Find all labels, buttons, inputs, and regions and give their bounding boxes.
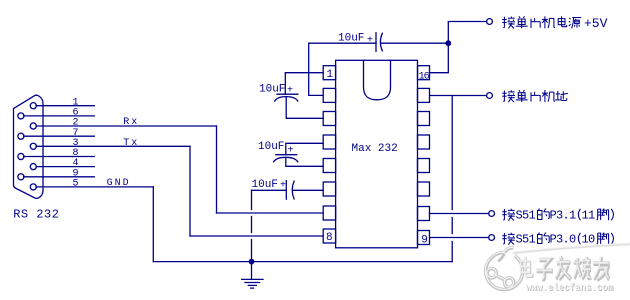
wire GND vertical [152, 187, 154, 262]
wire pin7 stub [24, 135, 95, 137]
svg-text:Max 232: Max 232 [352, 143, 398, 155]
svg-text:+: + [288, 145, 294, 156]
MCU ground terminal circle [487, 93, 493, 99]
U1 pin 1 box [323, 66, 335, 80]
label: 接单片机电源+5V [502, 16, 581, 28]
ground symbol [251, 262, 253, 280]
wire pin5 GND [36, 186, 153, 188]
svg-text:16: 16 [419, 71, 430, 82]
U1 pin 8 box [323, 229, 335, 243]
svg-text:Tx: Tx [123, 138, 139, 149]
svg-text:+: + [367, 35, 373, 46]
label: 接单片机地 [502, 90, 568, 102]
capacitor C2 wiring (pin4 to pin5) [286, 143, 323, 154]
wire Rx to U1 pin7 [217, 212, 324, 214]
svg-text:+5V: +5V [584, 16, 608, 31]
label: 接S51的P3.0（10脚） [502, 233, 613, 245]
U1 pin 10 box [418, 207, 430, 221]
U1 pin 15 box [418, 88, 430, 102]
U1 pin 11 box [418, 182, 430, 196]
U1 pin 12 box [418, 159, 430, 173]
J1 pin 3 circle [30, 143, 36, 149]
J1 pin 1 circle [30, 103, 36, 109]
U1 pin 7 box [323, 206, 335, 220]
svg-text:+: + [280, 181, 286, 192]
capacitor C2 plates [276, 154, 297, 156]
J1 pin 6 circle [18, 113, 24, 119]
U1 pin 3 box [323, 112, 335, 126]
svg-text:5: 5 [73, 179, 79, 190]
C4 vertical to ground rail (with crossing gaps) [251, 190, 253, 209]
wire pin8 stub [24, 156, 95, 158]
VCC terminal circle [487, 19, 493, 25]
capacitor C3 plates [375, 33, 377, 52]
svg-text:11: 11 [582, 208, 596, 222]
U1 notch [364, 60, 391, 100]
svg-text:8: 8 [326, 232, 333, 244]
svg-text:Rx: Rx [123, 117, 139, 128]
svg-text:10uF: 10uF [258, 141, 284, 153]
junction dot VCC/C3 node [445, 40, 451, 46]
label: 接S51的P3.1（11脚） [502, 209, 613, 221]
svg-text:9: 9 [421, 234, 428, 246]
capacitor C4 wiring (pin6 to GND) [252, 189, 287, 191]
U1 pin 16 box [418, 66, 430, 80]
J1 pin 9 circle [18, 174, 24, 180]
J1 pin 2 circle [30, 123, 36, 129]
svg-text:10uF: 10uF [252, 179, 278, 191]
svg-text:P3.0: P3.0 [550, 232, 577, 246]
svg-text:10uF: 10uF [259, 84, 285, 96]
watermark logo [485, 247, 522, 289]
IC U1 Max232 body [336, 60, 418, 248]
wire pin9 stub [24, 176, 95, 178]
U1 pin 2 box [323, 88, 335, 102]
wire U1 pin16 to VCC node [430, 22, 488, 73]
svg-text:P3.1: P3.1 [550, 208, 577, 222]
wire U1 pin10 to P3.1 terminal [430, 213, 489, 215]
wire pin3 Tx [36, 145, 190, 147]
P3.0 terminal circle [489, 235, 495, 241]
svg-text:www.elecfans.com: www.elecfans.com [526, 282, 613, 294]
U1 pin 13 box [418, 135, 430, 149]
wire ground rail [153, 261, 452, 263]
connector J1 DB9 RS232 outline [14, 95, 44, 198]
wire U1 pin9 to P3.0 terminal [430, 237, 489, 239]
svg-text:+: + [287, 85, 293, 96]
capacitor C1 plates [277, 93, 298, 95]
J1 pin 7 circle [18, 133, 24, 139]
svg-text:1: 1 [327, 69, 334, 81]
wire Rx vertical [216, 126, 218, 213]
capacitor C3 wiring (pin2 to VCC) [309, 43, 376, 95]
svg-text:10uF: 10uF [338, 33, 364, 45]
junction dot ground rail node [249, 259, 255, 265]
wire pin1 stub [36, 105, 94, 107]
svg-text:RS 232: RS 232 [13, 208, 59, 222]
capacitor C4 plates [285, 181, 287, 200]
svg-text:S51: S51 [516, 232, 536, 246]
U1 pin 4 box [323, 135, 335, 149]
J1 pin 5 circle [30, 184, 36, 190]
U1 pin 6 box [323, 182, 335, 196]
U1 pin 5 box [323, 159, 335, 173]
J1 pin 8 circle [18, 153, 24, 159]
watermark swoosh arc [513, 244, 630, 253]
U1 pin 9 box [418, 231, 430, 245]
svg-text:10: 10 [582, 232, 596, 246]
wire Tx vertical [189, 146, 191, 236]
wire pin4 stub [36, 166, 94, 168]
capacitor C1 wiring (pin1 to pin3) [285, 73, 323, 95]
svg-text:GND: GND [107, 178, 131, 189]
wire pin6 stub [24, 115, 95, 117]
wire Tx to U1 pin8 [190, 235, 323, 237]
P3.1 terminal circle [489, 211, 495, 217]
wire MCU-ground vertical (with crossing gaps) [451, 96, 453, 210]
watermark text 电子发烧友 [521, 256, 609, 278]
wire U1 pin15 to MCU ground terminal [430, 95, 488, 97]
wire pin2 Rx [36, 125, 216, 127]
svg-text:S51: S51 [516, 208, 536, 222]
U1 pin 14 box [418, 112, 430, 126]
J1 pin 4 circle [30, 164, 36, 170]
